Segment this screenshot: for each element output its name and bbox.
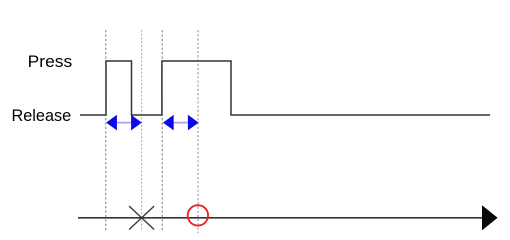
- wire button waveform: [80, 61, 490, 115]
- wire time axis: [78, 217, 483, 219]
- marker X (rejected event): [129, 206, 154, 229]
- node T1 guide (dashed line at first press edge): [105, 30, 107, 231]
- measure arrow A1 (debounce interval 1, double-headed blue): [106, 115, 142, 131]
- node T3 guide (dashed line at second press edge): [161, 30, 163, 231]
- measure arrow A2 (debounce interval 2, double-headed blue): [163, 115, 199, 131]
- node T4 guide (dashed line at accept point / red circle): [197, 30, 199, 233]
- svg-text:Release: Release: [12, 106, 72, 125]
- node T2 guide (dashed line at debounce point / X mark): [141, 30, 143, 231]
- marker red circle (accepted event): [188, 205, 208, 225]
- svg-text:Press: Press: [28, 52, 72, 71]
- arrowhead time axis: [482, 205, 498, 230]
